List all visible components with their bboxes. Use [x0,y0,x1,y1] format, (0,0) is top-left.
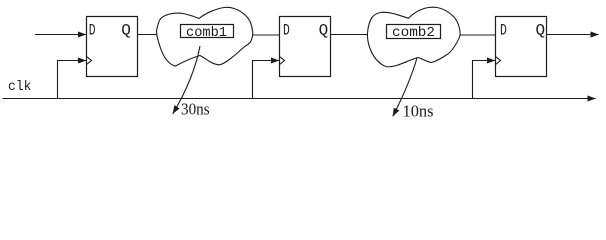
flip-flop U1 box [87,17,138,77]
svg-text:D: D [500,22,507,40]
wire: comb1 output to FF2 D [246,34,280,36]
comb2 label box [387,25,441,39]
svg-text:Q: Q [319,22,329,40]
svg-text:10ns: 10ns [403,102,434,121]
comb1 label box [181,25,234,38]
comb2 cloud [367,7,460,66]
svg-text:D: D [283,22,290,40]
U1 clock edge wedge [87,57,92,64]
30ns delay pointer arrow [173,46,200,114]
wire: clk bus with arrow [3,98,596,100]
comb1 cloud [157,7,253,66]
wire: input arrow into FF1 D [35,34,86,36]
svg-text:30ns: 30ns [181,100,210,119]
U2 clock edge wedge [280,57,285,64]
svg-text:comb2: comb2 [392,25,435,41]
wire: U2 Q output to comb2 [330,34,372,36]
wire: clock riser and arrow into FF1 clock pin [58,61,87,99]
wire: comb2 output to FF3 D [455,34,496,36]
svg-text:clk: clk [8,79,32,95]
wire: U1 Q output to comb1 [138,34,166,36]
svg-text:comb1: comb1 [186,25,227,41]
U3 clock edge wedge [496,57,501,64]
wire: U3 Q output arrow [547,34,599,36]
10ns delay pointer arrow [393,58,417,116]
svg-text:Q: Q [121,22,131,40]
svg-text:Q: Q [536,22,546,40]
flip-flop U3 box [496,17,547,77]
flip-flop U2 box [280,17,331,77]
wire: clock riser and arrow into FF2 clock pin [253,61,280,99]
svg-text:D: D [89,22,96,40]
wire: clock riser and arrow into FF3 clock pin [473,61,496,99]
